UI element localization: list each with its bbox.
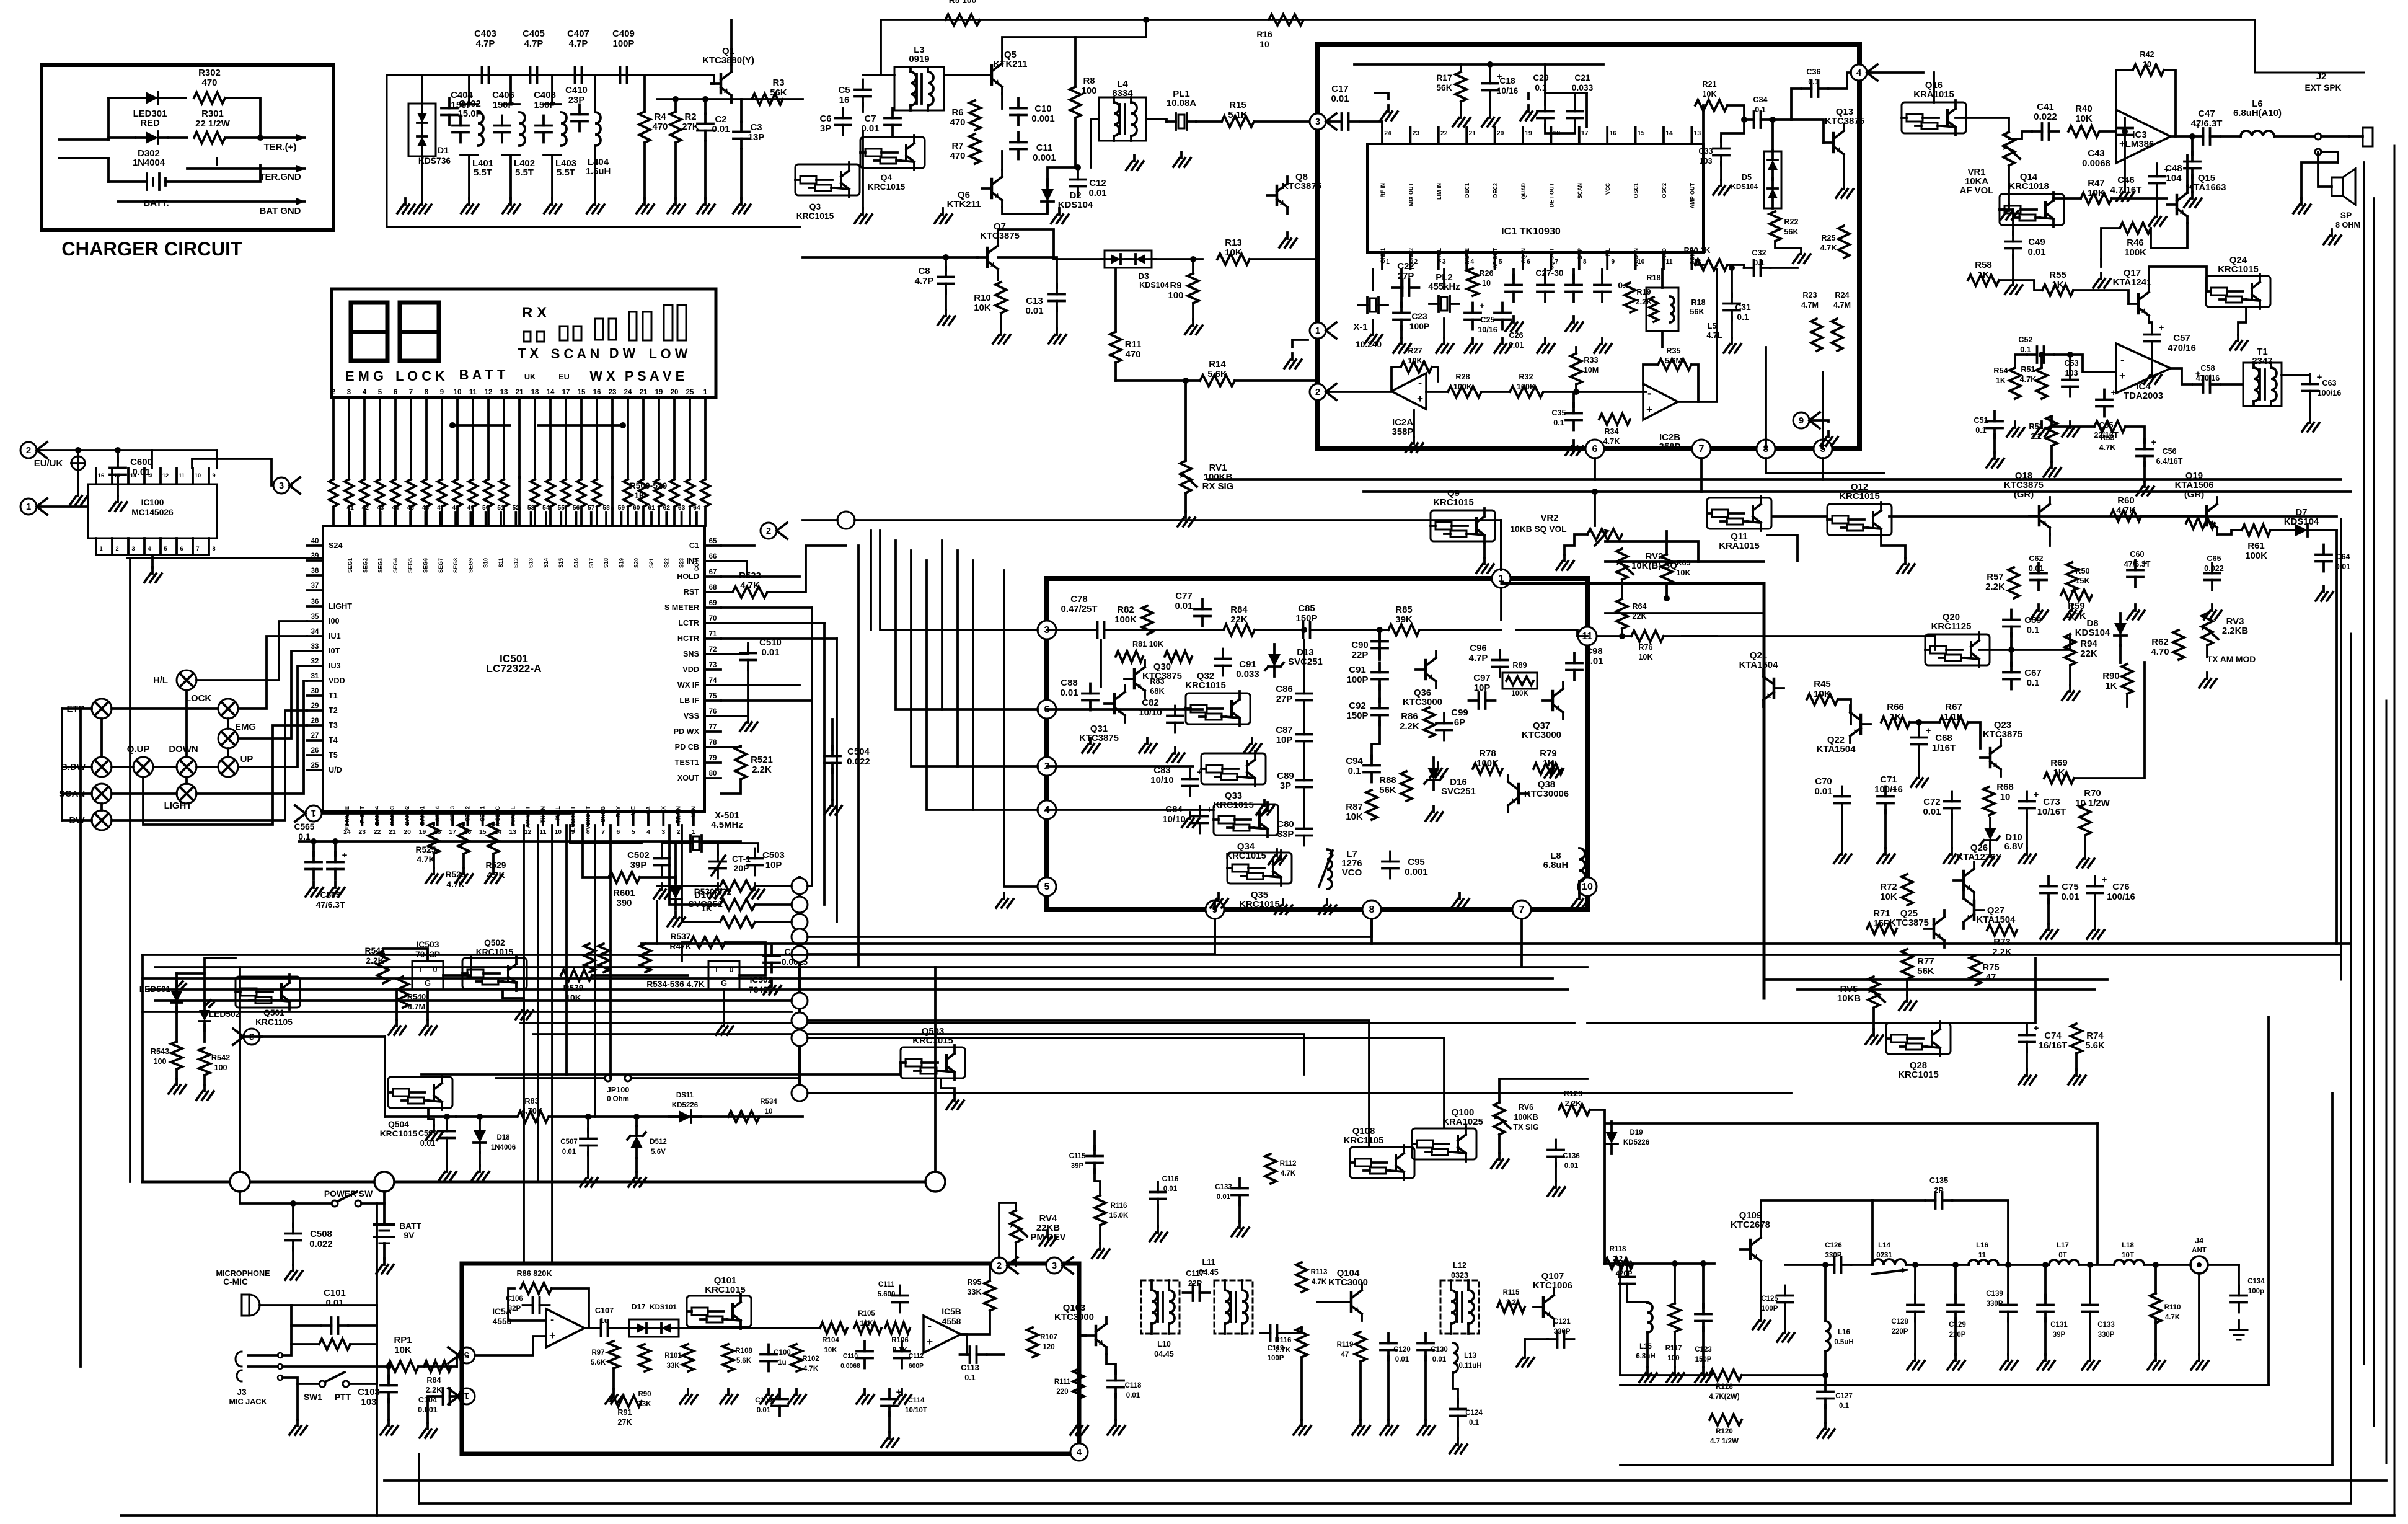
- wire: [1910, 721, 1939, 724]
- svg-text:S13: S13: [528, 558, 534, 568]
- wire: [387, 74, 714, 76]
- wire: [238, 666, 307, 767]
- capacitor C56: [2137, 448, 2153, 451]
- wire: [1481, 391, 1510, 393]
- svg-text:+: +: [549, 1329, 555, 1342]
- wire: [2191, 175, 2194, 192]
- svg-text:22: 22: [374, 829, 381, 836]
- wire: [2100, 259, 2102, 267]
- capacitor C599: [439, 1130, 455, 1133]
- svg-text:22K: 22K: [1230, 614, 1248, 625]
- svg-text:10.08A: 10.08A: [1167, 98, 1196, 109]
- wire: [2126, 694, 2128, 707]
- wire: [59, 157, 108, 159]
- wire: [2119, 645, 2122, 663]
- svg-text:WE: WE: [630, 806, 637, 815]
- wire: [1906, 979, 1908, 995]
- 7-segment digit DIGIT1: [351, 303, 387, 361]
- svg-text:C6: C6: [819, 113, 831, 124]
- wire: [1375, 93, 1388, 99]
- resistor R47: [2081, 193, 2112, 204]
- resistor R543: [171, 1042, 182, 1069]
- crystal PL1: [1175, 113, 1177, 130]
- wire: [1775, 241, 1801, 248]
- ground: [635, 1172, 638, 1178]
- capacitor C34: [1753, 112, 1755, 128]
- svg-text:KRC1015: KRC1015: [796, 211, 834, 221]
- ground: [2237, 335, 2239, 341]
- ground: [175, 1079, 178, 1085]
- svg-text:5: 5: [378, 389, 382, 396]
- wire: [185, 777, 188, 784]
- wire: [433, 854, 435, 868]
- bus circle: [837, 512, 855, 529]
- svg-text:S14: S14: [543, 558, 549, 568]
- svg-text:4.7K: 4.7K: [417, 855, 434, 864]
- wire: [808, 885, 812, 887]
- svg-text:8: 8: [212, 546, 215, 552]
- svg-text:150P: 150P: [493, 100, 514, 110]
- wire: [155, 999, 792, 1002]
- capacitor C26: [1494, 312, 1511, 314]
- svg-text:R16: R16: [1256, 30, 1272, 39]
- wire: [108, 180, 147, 183]
- transistor Q19: [2205, 507, 2208, 525]
- svg-text:KTC3875: KTC3875: [1983, 729, 2022, 740]
- capacitor C6: [835, 117, 851, 120]
- wire: [583, 825, 609, 877]
- IC501 left pins: [307, 544, 323, 547]
- wire: [2221, 135, 2241, 138]
- capacitor C504: [824, 755, 840, 758]
- IC501 bottom pins: [346, 812, 348, 825]
- svg-text:5: 5: [1499, 259, 1502, 265]
- connector 1: [1310, 322, 1336, 339]
- wire: [383, 1243, 386, 1259]
- svg-text:6P: 6P: [1454, 717, 1465, 728]
- wire: [508, 1288, 546, 1321]
- svg-text:C407: C407: [567, 29, 589, 39]
- resistor R69: [2044, 773, 2074, 784]
- svg-text:C97: C97: [1473, 673, 1490, 683]
- bus circle: [792, 1085, 808, 1101]
- svg-text:9: 9: [1611, 259, 1615, 265]
- wire: [2221, 383, 2243, 386]
- wire: [1824, 1265, 1827, 1321]
- svg-text:4.7K: 4.7K: [2020, 375, 2037, 384]
- wire: [2282, 375, 2310, 378]
- svg-text:AF OUT: AF OUT: [1493, 248, 1499, 269]
- capacitor C8: [938, 276, 954, 278]
- inductor L15: [1647, 1303, 1652, 1332]
- svg-text:6.4/16T: 6.4/16T: [2156, 457, 2183, 466]
- wire: [927, 560, 1038, 810]
- svg-text:+: +: [1480, 301, 1485, 311]
- svg-text:2.2K: 2.2K: [426, 1386, 443, 1394]
- wire: [2149, 267, 2207, 291]
- ground: [2151, 369, 2153, 375]
- ground: [1282, 899, 1284, 905]
- svg-text:4: 4: [1856, 68, 1862, 78]
- svg-text:ANT: ANT: [2192, 1247, 2207, 1254]
- svg-text:R500-520: R500-520: [630, 481, 668, 490]
- svg-text:4.7M: 4.7M: [1801, 301, 1819, 309]
- wire: [989, 1265, 991, 1281]
- svg-text:R86: R86: [1401, 711, 1418, 722]
- svg-text:59: 59: [618, 505, 625, 512]
- svg-text:29: 29: [311, 702, 319, 710]
- svg-text:0.1: 0.1: [2020, 345, 2031, 354]
- inductor L16b: [1825, 1321, 1830, 1351]
- svg-text:R70: R70: [2084, 788, 2101, 799]
- svg-text:7: 7: [196, 546, 199, 552]
- svg-text:62: 62: [663, 505, 671, 512]
- svg-text:C43: C43: [2088, 148, 2104, 159]
- ground: [1238, 1221, 1241, 1228]
- svg-text:1K: 1K: [1996, 376, 2006, 385]
- ground: [1527, 105, 1530, 112]
- svg-text:1K: 1K: [1977, 270, 1989, 280]
- svg-text:R59: R59: [2068, 601, 2084, 611]
- wire: [1300, 1357, 1303, 1420]
- svg-text:Q504: Q504: [388, 1120, 409, 1129]
- wire: [283, 1305, 291, 1355]
- ground: [117, 496, 119, 502]
- svg-text:L10: L10: [1157, 1340, 1171, 1349]
- wire: [1621, 629, 1623, 636]
- ground: [1263, 800, 1266, 806]
- wire: [1378, 630, 1381, 660]
- svg-text:8334: 8334: [1112, 88, 1133, 99]
- wire: [446, 1145, 448, 1166]
- op-amp IC5B: [924, 1316, 961, 1353]
- wire: [1682, 635, 1935, 637]
- svg-text:10: 10: [195, 472, 201, 479]
- wire: [462, 823, 465, 825]
- wire: [1545, 125, 1575, 133]
- wire: [880, 20, 882, 75]
- svg-text:100KB: 100KB: [1514, 1113, 1538, 1122]
- wire: [2316, 529, 2337, 531]
- svg-text:DOWN: DOWN: [169, 744, 198, 755]
- wire: [38, 505, 88, 508]
- wire: [100, 804, 103, 810]
- svg-text:C507: C507: [560, 1138, 578, 1146]
- ground: [1872, 1029, 1875, 1035]
- potentiometer RV3: [2202, 613, 2213, 645]
- wire: [238, 651, 307, 738]
- svg-text:SNS: SNS: [683, 650, 699, 658]
- svg-text:21: 21: [1468, 130, 1476, 137]
- wire: [1255, 629, 1292, 631]
- svg-text:11: 11: [179, 472, 185, 479]
- wire: [395, 990, 398, 1020]
- svg-text:10K: 10K: [394, 1345, 412, 1355]
- wire: [721, 637, 837, 640]
- capacitor C89: [1296, 779, 1312, 782]
- svg-text:4.70: 4.70: [2151, 647, 2169, 657]
- svg-text:68K: 68K: [1150, 687, 1165, 696]
- wire: [721, 667, 748, 716]
- svg-text:C7: C7: [864, 113, 876, 124]
- svg-text:AF VOL: AF VOL: [1960, 185, 1994, 196]
- svg-text:100K: 100K: [2245, 551, 2267, 561]
- ground: [1058, 208, 1061, 215]
- capacitor C103: [381, 1384, 397, 1387]
- ground: [1989, 851, 1991, 857]
- svg-text:6.8uH(A10): 6.8uH(A10): [2233, 108, 2282, 118]
- wire: [1303, 707, 1305, 728]
- svg-text:+: +: [2102, 874, 2107, 885]
- svg-text:VDD: VDD: [329, 676, 345, 685]
- ground: [1601, 338, 1603, 344]
- wire: [1674, 1264, 1676, 1303]
- ground: [1400, 338, 1403, 344]
- resistor R26: [1467, 268, 1478, 296]
- svg-text:R97: R97: [591, 1349, 604, 1357]
- wire: [1289, 1327, 1302, 1333]
- resistor RP1: [387, 1361, 418, 1372]
- wire: [177, 958, 236, 973]
- ground: [421, 198, 423, 205]
- lcd indicator: [609, 319, 616, 340]
- connector 1: [295, 805, 322, 822]
- R89 box: [1502, 673, 1537, 689]
- wire: [1914, 1265, 1916, 1298]
- resistor R11: [1110, 332, 1121, 363]
- svg-text:72: 72: [709, 646, 717, 653]
- svg-text:30: 30: [311, 688, 319, 695]
- digital transistor Q11: [1707, 498, 1771, 529]
- key switch EMG: [218, 729, 238, 748]
- resistor R34: [1599, 414, 1630, 425]
- wire: [2151, 348, 2153, 369]
- svg-text:3P: 3P: [820, 123, 831, 134]
- resistor R14: [1200, 375, 1235, 386]
- svg-text:R65: R65: [1676, 559, 1690, 567]
- ground: [1483, 558, 1486, 564]
- svg-text:C27-30: C27-30: [1535, 268, 1564, 278]
- capacitor C71: [1877, 795, 1894, 798]
- wire: [721, 622, 824, 624]
- capacitor C46: [2149, 175, 2165, 178]
- svg-text:358P: 358P: [1392, 427, 1414, 437]
- wire: [767, 546, 846, 592]
- resistor R129: [1559, 1104, 1590, 1115]
- capacitor C99: [1436, 722, 1452, 725]
- svg-text:VOXOUT: VOXOUT: [585, 806, 591, 830]
- svg-text:10K: 10K: [1702, 90, 1717, 99]
- wire: [1001, 151, 1003, 170]
- svg-text:10K: 10K: [1346, 812, 1363, 822]
- svg-text:6: 6: [180, 546, 183, 552]
- ground: [334, 882, 337, 888]
- svg-text:IU3: IU3: [329, 662, 341, 670]
- wire: [2149, 322, 2152, 328]
- resistor R61: [2242, 525, 2270, 536]
- svg-text:100: 100: [1082, 86, 1097, 96]
- wire: [2010, 650, 2013, 666]
- svg-text:KTC3000: KTC3000: [1403, 697, 1442, 707]
- wire: [823, 623, 826, 905]
- resistor R10: [995, 282, 1007, 313]
- svg-text:TX AM MOD: TX AM MOD: [2207, 655, 2256, 664]
- svg-text:C80: C80: [1277, 819, 1294, 830]
- svg-text:C599: C599: [418, 1129, 437, 1138]
- resistor R64b: [1616, 599, 1628, 629]
- svg-text:-: -: [1647, 386, 1651, 399]
- wire: [657, 885, 720, 887]
- op-amp IC4: [2116, 343, 2171, 393]
- resistor R116: [1095, 1195, 1106, 1225]
- svg-text:R53: R53: [2100, 433, 2114, 442]
- battery BATT 9V: [374, 1223, 394, 1226]
- svg-text:R76: R76: [1638, 643, 1652, 652]
- junction: [2067, 352, 2073, 358]
- wire: [2171, 135, 2192, 138]
- wire: [2116, 70, 2133, 124]
- svg-text:R87: R87: [1346, 802, 1362, 812]
- IC501 top pins: [349, 512, 351, 526]
- wire: [1114, 268, 1117, 332]
- lcd indicator: [560, 326, 568, 340]
- capacitor C130: [1418, 1342, 1434, 1345]
- svg-text:C118: C118: [1125, 1382, 1142, 1389]
- ground: [1099, 1243, 1101, 1249]
- svg-text:DEC2: DEC2: [1493, 183, 1499, 198]
- svg-text:15: 15: [479, 829, 487, 836]
- ground: [1359, 1420, 1362, 1426]
- wire: [857, 546, 860, 967]
- wire: [755, 903, 792, 906]
- wire: [1954, 1265, 1957, 1298]
- resistor R522: [733, 587, 767, 598]
- svg-text:47: 47: [1986, 972, 1996, 983]
- svg-text:C110: C110: [843, 1353, 858, 1360]
- resistor R82: [1142, 606, 1153, 634]
- IC1 pins: [1381, 127, 1383, 144]
- ground: [1089, 738, 1092, 744]
- svg-text:T1: T1: [329, 691, 338, 700]
- svg-text:3: 3: [279, 481, 284, 491]
- wire: [565, 825, 568, 1074]
- svg-text:C111: C111: [878, 1281, 895, 1288]
- wire: [587, 1152, 589, 1172]
- svg-text:T2: T2: [329, 706, 338, 715]
- svg-text:T4: T4: [329, 736, 338, 745]
- resistor R46: [2120, 223, 2151, 234]
- resistor R65: [1661, 554, 1672, 584]
- wire: [149, 988, 1568, 991]
- resistor R106: [885, 1322, 910, 1334]
- svg-text:8 OHM: 8 OHM: [2335, 221, 2360, 229]
- svg-text:R84: R84: [1230, 605, 1248, 615]
- wire: [808, 919, 1372, 937]
- wire: [2101, 228, 2120, 259]
- svg-text:10: 10: [454, 389, 462, 396]
- wire: [1317, 1301, 1341, 1303]
- wire: [1851, 1264, 1872, 1266]
- resistor R95: [984, 1281, 995, 1311]
- wire: [1424, 1357, 1427, 1420]
- svg-text:OSC2: OSC2: [1661, 183, 1667, 198]
- cap lead: [560, 74, 573, 76]
- wire: [1400, 269, 1403, 306]
- wire: [227, 719, 229, 729]
- junction: [2005, 1262, 2011, 1268]
- svg-text:R69: R69: [2050, 758, 2067, 768]
- svg-text:43: 43: [377, 505, 384, 512]
- resistor R542: [199, 1048, 210, 1075]
- wire: [998, 229, 1054, 257]
- lcd indicator: [524, 332, 531, 342]
- svg-text:LB IF: LB IF: [679, 696, 699, 705]
- resistor R529: [488, 823, 499, 854]
- junction: [1916, 719, 1922, 725]
- key switch DW: [92, 810, 112, 830]
- svg-text:R117: R117: [1665, 1345, 1682, 1352]
- wire: [196, 621, 307, 680]
- wire: [2112, 197, 2167, 200]
- bus circle: [792, 993, 808, 1009]
- svg-text:IC5B: IC5B: [942, 1307, 961, 1316]
- wire: [1784, 1309, 1786, 1327]
- svg-text:TER.(+): TER.(+): [264, 142, 297, 153]
- svg-text:C135: C135: [1929, 1176, 1948, 1185]
- capacitor C85: [1302, 622, 1305, 638]
- svg-text:C8: C8: [918, 266, 930, 277]
- svg-text:R112: R112: [1280, 1160, 1297, 1167]
- wire: [803, 519, 837, 521]
- svg-text:56K: 56K: [1379, 785, 1396, 795]
- svg-text:5.5T: 5.5T: [557, 167, 575, 178]
- svg-text:S11: S11: [498, 558, 504, 568]
- svg-text:R108: R108: [735, 1347, 752, 1355]
- wire: [721, 699, 812, 702]
- wire: [238, 636, 307, 709]
- svg-text:C125: C125: [1761, 1295, 1778, 1303]
- ground: [551, 198, 553, 205]
- capacitor C555: [764, 955, 780, 957]
- wire: [2050, 446, 2053, 462]
- svg-text:25: 25: [311, 762, 319, 769]
- wire: [808, 1021, 1369, 1146]
- svg-text:R64: R64: [1632, 602, 1646, 611]
- svg-text:24: 24: [1384, 130, 1391, 137]
- capacitor C32: [1753, 260, 1755, 276]
- svg-text:L O C K: L O C K: [395, 368, 445, 384]
- digital transistor Q16: [1902, 102, 1966, 133]
- svg-text:0.1: 0.1: [1975, 426, 1987, 435]
- svg-text:G: G: [425, 979, 431, 988]
- svg-text:20: 20: [671, 389, 679, 396]
- capacitor C48: [2184, 161, 2200, 163]
- wire: [2026, 815, 2028, 848]
- svg-text:C2: C2: [715, 114, 726, 125]
- IC100 pins: [95, 468, 97, 484]
- svg-text:C1: C1: [689, 541, 699, 550]
- diode D100: [669, 877, 682, 909]
- wire: [2141, 515, 2197, 517]
- node 2: [1038, 757, 1056, 776]
- inductor L6: [2241, 131, 2274, 136]
- capacitor C77: [1194, 608, 1211, 611]
- svg-text:0.01: 0.01: [1395, 1356, 1409, 1363]
- capacitor C123: [1695, 1313, 1711, 1316]
- wire: [855, 519, 1501, 521]
- svg-text:0323: 0323: [1451, 1271, 1468, 1280]
- svg-text:28: 28: [311, 717, 319, 725]
